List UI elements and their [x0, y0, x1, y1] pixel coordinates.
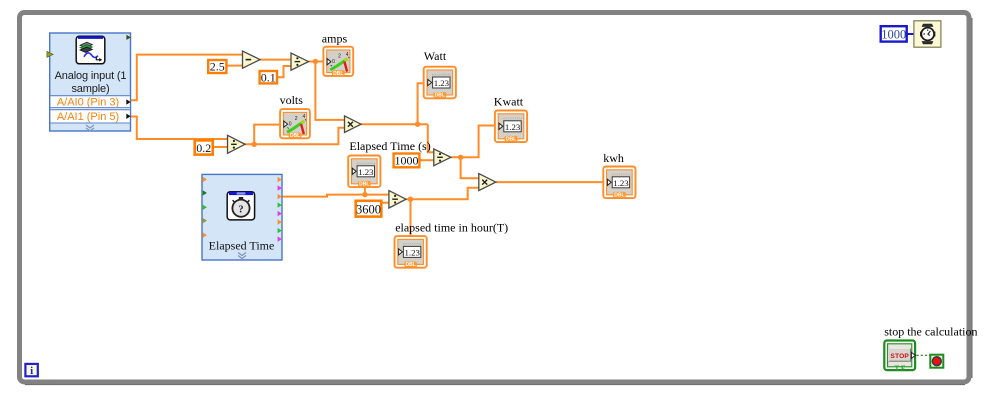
gauge indicator amps — [322, 31, 353, 77]
wire divide2 branch to multiply1 — [254, 128, 344, 145]
svg-text:0.1: 0.1 — [261, 70, 276, 84]
iteration terminal i — [25, 364, 37, 377]
indicator Watt — [424, 49, 456, 99]
wire 1000 to divide3 — [420, 159, 434, 161]
stop boolean control — [884, 324, 977, 372]
express VI Analog input — [47, 33, 131, 131]
wire AI1 to divide2 — [131, 117, 228, 140]
svg-text:3600: 3600 — [356, 203, 381, 217]
wire 0.1 to divide1 — [277, 66, 291, 77]
wire divide1 branch down to multiply1 — [315, 62, 344, 120]
svg-text:STOP: STOP — [890, 353, 909, 360]
left terminals — [203, 177, 207, 238]
svg-text:1000: 1000 — [395, 154, 419, 168]
indicator elapsed time in hour(T) — [395, 221, 509, 269]
divide4 function — [389, 191, 406, 208]
wire multiply1 to Watt and divide3 — [361, 83, 434, 152]
wire multiply2 to kwh — [496, 181, 602, 183]
svg-text:Watt: Watt — [424, 49, 447, 63]
wire divide2 to volts — [245, 125, 280, 145]
multiply1 function — [345, 116, 362, 133]
constant 1000 (blue, wait ms) — [881, 26, 907, 41]
chevron — [86, 125, 94, 131]
svg-text:A/AI1 (Pin 5): A/AI1 (Pin 5) — [57, 111, 119, 123]
input terminal arrow — [47, 51, 53, 57]
loop condition terminal — [930, 355, 943, 368]
right terminals — [278, 177, 282, 242]
svg-text:1000: 1000 — [881, 28, 906, 42]
wire 3600 to divide4 — [382, 202, 389, 204]
svg-text:amps: amps — [322, 31, 348, 45]
boolean wire to loop condition — [917, 354, 931, 356]
wire subtract to divide1 — [260, 59, 291, 61]
constant 1000 (ms to divide) — [394, 154, 420, 168]
top right terminal arrow — [126, 35, 130, 40]
svg-text:Analog input (1: Analog input (1 — [55, 70, 127, 82]
wire divide3 to Kwatt — [451, 126, 494, 158]
svg-text:elapsed time in hour(T): elapsed time in hour(T) — [395, 221, 508, 235]
indicator kwh — [603, 151, 635, 199]
svg-text:Elapsed Time (s): Elapsed Time (s) — [349, 139, 430, 153]
chevron — [238, 253, 246, 259]
svg-text:Kwatt: Kwatt — [494, 94, 524, 108]
svg-text:volts: volts — [280, 93, 304, 107]
constant 0.1 — [260, 70, 277, 84]
svg-text:stop the calculation: stop the calculation — [884, 324, 977, 338]
svg-text:i: i — [30, 365, 33, 377]
wire ElapsedTime to divide4 — [282, 195, 389, 197]
wire divide1 to amps — [309, 61, 323, 63]
Elapsed Time icon — [227, 192, 254, 220]
indicator Kwatt — [494, 94, 527, 142]
svg-text:Elapsed Time: Elapsed Time — [209, 238, 275, 252]
constant 0.2 — [195, 140, 213, 155]
wait (ms) function — [914, 21, 941, 47]
constant 2.5 — [208, 60, 226, 74]
divide2 function — [228, 135, 246, 153]
svg-text:sample): sample) — [71, 83, 109, 95]
WIRES — [131, 55, 602, 236]
gauge indicator volts — [280, 93, 310, 139]
wire 2.5 to subtract — [227, 65, 243, 67]
wire divide4 to multiply2 — [406, 188, 479, 199]
svg-text:0.2: 0.2 — [196, 141, 211, 155]
subtract function — [243, 51, 261, 68]
wire branch up to ET(s) indicator — [364, 187, 366, 195]
constant 3600 — [356, 201, 382, 217]
wire AI0 to subtract — [131, 55, 243, 101]
wire divide3 branch to multiply2 — [461, 157, 479, 178]
junction dots — [252, 59, 464, 202]
svg-text:T F: T F — [894, 364, 905, 372]
svg-text:A/AI0 (Pin 3): A/AI0 (Pin 3) — [57, 97, 119, 109]
divide1 function — [291, 53, 309, 70]
indicator Elapsed Time (s) — [348, 139, 431, 188]
divide3 function — [434, 149, 451, 166]
wire 0.2 to divide2 — [213, 146, 228, 148]
svg-text:kwh: kwh — [603, 151, 624, 165]
multiply2 function — [479, 174, 496, 191]
svg-text:?: ? — [238, 204, 243, 215]
Analog input icon — [76, 36, 105, 64]
svg-text:2.5: 2.5 — [210, 60, 225, 74]
wire divide4 branch down to hour indicator — [410, 199, 412, 235]
express VI Elapsed Time — [202, 174, 282, 260]
wire blue to wait — [907, 33, 914, 35]
